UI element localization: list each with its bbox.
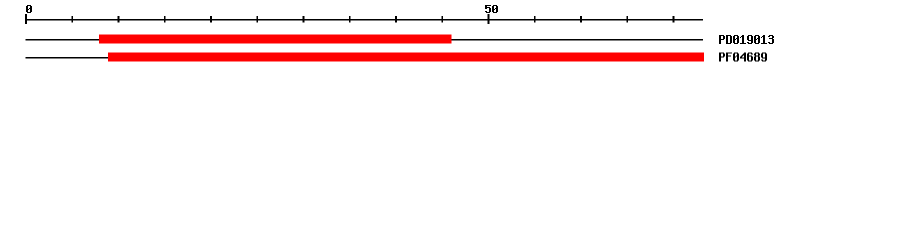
ruler axis line (protein scale 0-73 aa) [25, 19, 703, 21]
minor tick at 45 aa [441, 16, 443, 23]
minor tick at 70 aa [673, 16, 675, 23]
minor tick at 10 aa [118, 16, 120, 23]
minor tick at 60 aa [580, 16, 582, 23]
ruler label 0 [26, 5, 32, 13]
minor tick at 30 aa [303, 16, 305, 23]
major tick at 50 aa [488, 14, 490, 24]
row 1 red domain bar PD019013 (aa 8-46) [99, 35, 452, 44]
minor tick at 35 aa [349, 16, 351, 23]
minor tick at 15 aa [164, 16, 166, 23]
minor tick at 55 aa [534, 16, 536, 23]
minor tick at 5 aa [71, 16, 73, 23]
row 2 label PF04689 [719, 52, 767, 61]
row 1 sequence line (ProDom entry) [25, 39, 703, 40]
major tick at 0 aa [25, 14, 27, 24]
ruler label 50 [485, 5, 498, 13]
minor tick at 40 aa [395, 16, 397, 23]
minor tick at 25 aa [256, 16, 258, 23]
minor tick at 20 aa [210, 16, 212, 23]
row 2 red domain bar PF04689 (aa 9-73) [108, 52, 704, 61]
minor tick at 65 aa [626, 16, 628, 23]
row 2 sequence line (Pfam entry) [25, 57, 108, 58]
row 1 label PD019013 [719, 35, 774, 44]
